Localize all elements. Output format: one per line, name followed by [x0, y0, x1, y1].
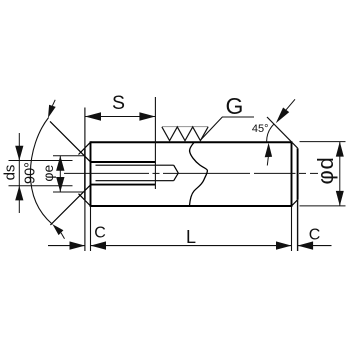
svg-text:C: C [309, 227, 321, 244]
svg-text:φd: φd [313, 156, 338, 184]
svg-text:45°: 45° [252, 123, 269, 135]
svg-text:S: S [112, 92, 125, 114]
svg-text:ds: ds [2, 165, 19, 181]
svg-text:G: G [226, 93, 244, 119]
svg-text:C: C [94, 225, 106, 242]
svg-text:φe: φe [40, 165, 56, 182]
svg-text:L: L [186, 227, 196, 247]
svg-text:90°: 90° [23, 162, 39, 184]
